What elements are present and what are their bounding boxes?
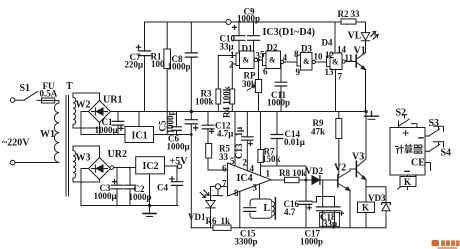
winding W2 (73, 98, 76, 125)
svg-text:V2: V2 (334, 163, 346, 174)
wire D4 pin14 power (334, 22, 336, 53)
transistor V2 (337, 175, 339, 187)
terminal top rail node (226, 20, 231, 25)
gate D3 box (301, 53, 313, 71)
IC4 op-amp triangle (228, 163, 272, 196)
watermark logo (432, 240, 440, 246)
svg-text:4.7: 4.7 (284, 207, 296, 217)
wire R9 column (338, 112, 340, 176)
svg-text:VD2: VD2 (306, 166, 324, 176)
svg-text:V1: V1 (354, 46, 366, 57)
terminal UR2 output node (110, 166, 114, 170)
wire fuse to transformer primary (55, 101, 59, 104)
transformer T core (66, 96, 69, 197)
wire C9 column (253, 22, 255, 51)
svg-text:11: 11 (345, 53, 354, 63)
capacitor C6 (185, 120, 198, 130)
svg-text:W3: W3 (76, 153, 91, 164)
svg-text:K: K (404, 177, 411, 187)
switch S4 (425, 142, 444, 152)
wire relay K bottom (365, 213, 367, 228)
resistor R6 (213, 225, 231, 230)
resistor R4 (230, 89, 235, 104)
wire C7 column (144, 22, 146, 112)
svg-text:150k: 150k (262, 154, 281, 164)
wire IC1 top pin (138, 112, 140, 127)
svg-text:UR1: UR1 (103, 95, 122, 106)
wire top supply rail (145, 21, 366, 23)
junction IC2 ground (148, 204, 151, 207)
wire R7 column (260, 112, 262, 176)
wire W2 bottom lead (73, 125, 100, 129)
svg-text:IC2: IC2 (143, 161, 159, 172)
wire C5 column (176, 112, 178, 135)
wire C4 column (176, 166, 178, 206)
wire D1 pin2 input (232, 63, 236, 65)
relay contact K slash (398, 174, 419, 189)
svg-text:D1: D1 (242, 44, 253, 54)
calculator box (390, 128, 425, 176)
capacitor C15 (244, 208, 256, 212)
wire C17 column (322, 197, 324, 228)
transistor V3 emitter to relay (358, 172, 366, 202)
wire feedback to output (261, 166, 307, 180)
wire C1 column (117, 112, 119, 135)
diode VD2 (312, 176, 320, 185)
svg-text:1000p: 1000p (267, 98, 290, 108)
wire UR1 bottom vertex to IC1 input (81, 123, 125, 135)
svg-text:C4: C4 (157, 183, 168, 193)
svg-text:D2: D2 (267, 43, 278, 53)
svg-text:IC3(D1~D4): IC3(D1~D4) (263, 27, 315, 38)
capacitor C10 (233, 26, 245, 41)
wire main mid rail (111, 111, 367, 113)
svg-text:33: 33 (219, 152, 229, 162)
ground symbol left (149, 206, 151, 214)
svg-text:~220V: ~220V (2, 138, 30, 149)
svg-text:D3: D3 (301, 44, 312, 54)
IC2 regulator box (136, 157, 165, 174)
svg-text:&: & (269, 56, 276, 65)
svg-text:D4: D4 (322, 38, 333, 48)
svg-text:CE: CE (411, 158, 425, 169)
svg-text:10: 10 (314, 52, 324, 62)
wire C12 R5 pin6 column (208, 112, 228, 171)
svg-text:+5V: +5V (170, 156, 189, 167)
junction output node (305, 179, 308, 182)
capacitor C8 (185, 53, 197, 57)
wire IC4 pin8 ground column (239, 191, 241, 227)
svg-text:T: T (66, 81, 73, 92)
wire D2 output to D3 (284, 61, 297, 63)
svg-text:220μ: 220μ (125, 60, 144, 70)
relay contact K box (400, 177, 416, 187)
wire D4 pin7 ground (335, 70, 337, 112)
gate D4 box (330, 53, 342, 70)
svg-text:1: 1 (266, 169, 271, 179)
svg-text:V3: V3 (352, 152, 364, 163)
capacitor C17 (316, 207, 327, 211)
switch S3 (425, 126, 444, 136)
svg-text:S2: S2 (396, 108, 407, 119)
calculator plus terminal (403, 131, 408, 136)
wire W3 top lead (73, 146, 100, 158)
wire C16 column (305, 180, 307, 228)
resistor R5 (206, 144, 212, 159)
wire W2 top lead (73, 93, 100, 101)
wire C10 column (238, 22, 240, 52)
svg-text:3: 3 (253, 183, 258, 193)
svg-text:UR2: UR2 (108, 149, 127, 160)
svg-text:VD1: VD1 (188, 212, 206, 222)
svg-text:47k: 47k (311, 127, 325, 137)
svg-text:30k: 30k (242, 79, 256, 89)
svg-text:12: 12 (325, 50, 335, 60)
svg-text:13: 13 (325, 67, 335, 77)
relay K coil box (358, 202, 375, 213)
svg-text:2: 2 (229, 60, 234, 70)
wire mains neutral input (15, 162, 59, 164)
wire C18 column (334, 197, 336, 228)
capacitor C12 (202, 125, 214, 133)
svg-text:1000p: 1000p (168, 62, 191, 72)
ground bar left (143, 213, 156, 215)
inductor L core bar (274, 198, 276, 220)
capacitor C2 (124, 185, 135, 189)
tank circuit L C15 box (250, 199, 272, 218)
wire D4 output to V1 base (345, 61, 356, 63)
svg-text:R4 100k: R4 100k (222, 86, 232, 118)
svg-text:5: 5 (230, 156, 235, 166)
svg-text:9: 9 (296, 67, 301, 77)
svg-text:5: 5 (260, 50, 265, 60)
svg-text:W2: W2 (76, 100, 91, 111)
photodiode VD1 (206, 201, 215, 208)
svg-text:1000μ: 1000μ (94, 191, 117, 201)
relay contact K leads (407, 175, 409, 190)
bridge rectifier UR2 (89, 158, 111, 180)
wire C13 pin2 column (246, 112, 248, 171)
wire C2 column (129, 168, 131, 206)
wire UR2 output to IC2 (111, 167, 136, 169)
svg-text:0.01μ: 0.01μ (284, 137, 305, 147)
wire IC4 pin7 (211, 187, 228, 201)
bridge rectifier UR1 (89, 101, 111, 123)
wire S1 to fuse (37, 99, 42, 101)
svg-text:IC1: IC1 (132, 131, 148, 142)
calculator minus bottom (405, 170, 410, 172)
winding W3 (73, 151, 76, 179)
svg-text:1: 1 (230, 50, 235, 60)
capacitor C9 (248, 36, 260, 41)
svg-text:2: 2 (243, 158, 248, 168)
wire RP column (258, 60, 260, 112)
calculator chinese glyph suan (405, 144, 413, 153)
svg-text:1000p: 1000p (166, 110, 176, 133)
svg-text:VD3: VD3 (368, 193, 386, 203)
wire left ground rail (81, 205, 178, 207)
wire VD1 cathode column (210, 208, 212, 228)
svg-text:33μ: 33μ (323, 219, 337, 229)
gate D2 box (266, 51, 281, 69)
svg-text:R8 10k: R8 10k (279, 168, 306, 178)
label C18 box (320, 213, 340, 227)
capacitor C3 (111, 180, 123, 189)
svg-text:R2: R2 (338, 9, 349, 19)
winding W1 (54, 103, 59, 162)
wire C8 C6 long column (190, 22, 192, 228)
svg-text:6: 6 (263, 67, 268, 77)
svg-text:1k: 1k (221, 216, 231, 226)
resistor R9 (336, 119, 342, 139)
svg-text:K: K (362, 203, 369, 213)
potentiometer RP (255, 80, 261, 93)
svg-text:7: 7 (338, 72, 343, 82)
switch S2 (399, 115, 418, 128)
terminal IC4 pin7 node (215, 184, 220, 189)
wire D1 output to D2 (258, 59, 263, 61)
LED VL (361, 33, 369, 41)
svg-text:1μ: 1μ (234, 127, 244, 137)
svg-text:1000p: 1000p (129, 192, 152, 202)
transistor V3 collector to rail (358, 112, 366, 167)
junction RP tap (257, 59, 260, 62)
capacitor C4 (170, 177, 183, 186)
wire mains live input to S1 (15, 99, 24, 101)
wire bottom ground rail (191, 227, 386, 229)
junction ground at V1 emitter (364, 110, 367, 113)
calculator chinese glyph qi (414, 145, 422, 153)
wire IC4 output row (271, 179, 338, 181)
wire C11 column (280, 64, 282, 112)
wire D1 pin1 input (218, 55, 236, 57)
svg-text:1000μ: 1000μ (167, 142, 190, 152)
svg-text:4: 4 (283, 53, 288, 63)
capacitor C7 (136, 45, 150, 56)
svg-text:S4: S4 (441, 148, 452, 159)
capacitor C5 (172, 127, 182, 131)
svg-text:100: 100 (151, 59, 165, 69)
svg-text:1000μ: 1000μ (95, 125, 118, 135)
diode VD3 (382, 204, 390, 211)
transistor V1 (355, 55, 357, 67)
transistor V2 collector (339, 169, 356, 178)
svg-text:4: 4 (250, 164, 255, 174)
resistor R1 (164, 49, 171, 69)
gate D1 box (240, 51, 255, 69)
resistor R8 (285, 177, 300, 182)
svg-text:1000p: 1000p (237, 13, 260, 23)
svg-text:L: L (264, 203, 271, 214)
svg-text:33: 33 (351, 9, 361, 19)
terminal bar under pin7 circle (212, 189, 223, 195)
junction IC1 output at C6 (190, 133, 193, 136)
wire IC2 output to +5V (165, 165, 178, 167)
capacitor C1 (112, 121, 124, 130)
svg-text:7: 7 (222, 178, 227, 188)
wire CE stub (425, 163, 431, 171)
wire UR1 minus vertex down (81, 112, 89, 135)
fuse FU (42, 98, 55, 103)
svg-text:W1: W1 (40, 129, 55, 140)
capacitor C11 (275, 82, 287, 86)
capacitor C16 (299, 201, 312, 210)
switch S1 blade (24, 92, 38, 101)
terminal mains bottom (10, 160, 15, 165)
svg-text:S1: S1 (20, 83, 31, 94)
wire W3 bottom lead (73, 178, 100, 182)
wire VD3 branch (366, 187, 386, 228)
junction C6 top (190, 110, 193, 113)
wire IC1 output (154, 134, 192, 136)
resistor R3 (216, 89, 221, 104)
ground symbol right of rail (365, 112, 379, 117)
resistor R2 (341, 19, 356, 24)
svg-text:4.7μ: 4.7μ (217, 129, 233, 139)
wire IC4 pin5 column (234, 112, 236, 166)
wire C17 C18 drop (312, 180, 335, 202)
wire UR2 minus vertex down (81, 169, 89, 206)
capacitor C14 (271, 135, 283, 139)
calculator minus top (419, 137, 424, 139)
terminal +5V (177, 164, 181, 168)
wire C3 column (116, 168, 118, 206)
wire R4 column (231, 64, 233, 112)
svg-text:IC4: IC4 (237, 173, 253, 184)
inductor L turns (272, 202, 274, 217)
resistor R7 (258, 150, 263, 163)
svg-text:VL: VL (348, 31, 362, 42)
svg-text:1000p: 1000p (300, 237, 323, 247)
wire VL drop from rail (365, 22, 367, 53)
wire IC4 pin3 to tank (259, 184, 261, 199)
calculator chinese glyph ji (396, 145, 404, 153)
transistor V3 (355, 161, 357, 176)
svg-text:8: 8 (234, 188, 239, 198)
svg-text:R6: R6 (206, 216, 217, 226)
svg-text:100k: 100k (195, 97, 214, 107)
svg-text:6: 6 (222, 164, 227, 174)
wire R3 column (217, 56, 219, 112)
svg-text:&: & (243, 56, 250, 65)
wire R1 column (166, 22, 168, 135)
wire C14 column (276, 112, 278, 167)
IC1 regulator box (125, 127, 154, 143)
wire V1 emitter to rail (365, 70, 367, 112)
svg-text:8: 8 (294, 49, 299, 59)
capacitor C13 (242, 137, 253, 146)
terminal mains top (10, 98, 15, 103)
svg-text:3300p: 3300p (235, 237, 258, 247)
svg-text:0.5A: 0.5A (40, 89, 58, 99)
wire D3 output to D4 (315, 61, 326, 63)
transistor V2 emitter to ground rail (339, 184, 350, 228)
svg-text:S3: S3 (429, 118, 440, 129)
wire IC2 ground column (149, 174, 151, 206)
capacitor C18 (329, 207, 344, 215)
svg-text:&: & (303, 57, 310, 66)
